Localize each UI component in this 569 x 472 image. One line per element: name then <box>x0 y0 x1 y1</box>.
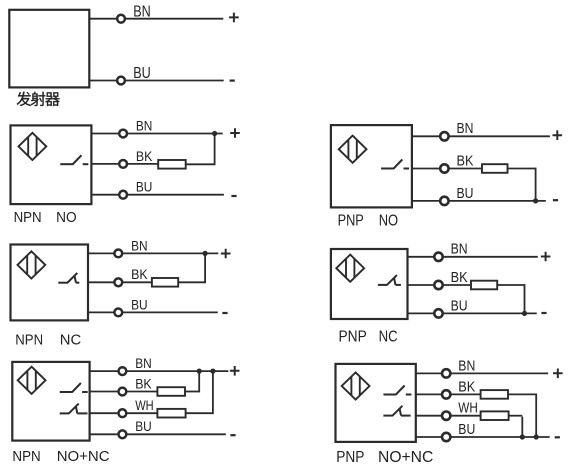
plus terminal PNP NO <box>553 130 563 140</box>
wire WH resistor to node NPN NO+NC <box>186 371 213 414</box>
terminal BN NPN NC <box>114 250 122 258</box>
svg-text:BN: BN <box>136 118 153 133</box>
transmitter box <box>9 10 89 88</box>
resistor load PNP NO <box>482 164 508 173</box>
svg-text:BN: BN <box>131 238 148 253</box>
svg-text:PNP: PNP <box>339 328 367 345</box>
terminal BK PNP NC <box>434 281 442 289</box>
plus terminal PNP NC <box>541 252 551 262</box>
wire WH NPN NO+NC <box>90 412 158 414</box>
node junction NPN NO <box>212 131 217 136</box>
svg-text:BK: BK <box>135 376 152 391</box>
svg-text:NO: NO <box>379 213 398 230</box>
wire BN NPN NC <box>88 252 218 254</box>
wire BK PNP NO <box>412 168 482 170</box>
resistor load WH NPN NO+NC <box>157 409 185 418</box>
wire BK resistor to node PNP NO+NC <box>508 394 536 438</box>
wire BU NPN NO <box>91 194 224 196</box>
sensor box PNP NO <box>331 125 412 207</box>
wire BN PNP NC <box>408 256 538 258</box>
sensor symbol PNP NC <box>336 255 364 282</box>
sensor box NPN NO+NC <box>12 362 89 441</box>
minus terminal PNP NO+NC <box>555 436 560 438</box>
terminal BU transmitter <box>117 77 125 85</box>
terminal BN PNP NC <box>434 253 442 261</box>
resistor load WH PNP NO+NC <box>481 411 509 420</box>
wire BN NPN NO+NC <box>90 370 229 372</box>
switch NC (PNP NC) <box>378 275 401 285</box>
svg-text:BK: BK <box>131 267 148 282</box>
svg-text:BU: BU <box>135 419 152 434</box>
svg-text:NC: NC <box>60 332 82 349</box>
label 发射器 <box>17 92 60 106</box>
terminal BU NPN NO+NC <box>119 430 127 438</box>
wire BU NPN NC <box>88 311 218 313</box>
resistor load NPN NC <box>152 278 178 287</box>
switch NC (PNP NO+NC) <box>383 406 410 416</box>
terminal WH NPN NO+NC <box>119 409 127 417</box>
wire resistor to node NPN NO <box>186 134 215 166</box>
plus terminal NPN NO <box>230 128 240 138</box>
wire BK NPN NO <box>91 163 158 165</box>
node junction NPN NC <box>203 251 208 256</box>
resistor load NPN NO <box>158 160 186 169</box>
node junction PNP NC <box>522 311 527 316</box>
wire BN PNP NO <box>412 135 550 137</box>
node junction 1 PNP NO+NC <box>520 434 525 439</box>
svg-text:NO+NC: NO+NC <box>378 449 433 466</box>
sensor box PNP NO+NC <box>336 364 416 442</box>
resistor load BK PNP NO+NC <box>481 390 508 399</box>
switch NO (PNP NO) <box>381 160 409 169</box>
terminal BU PNP NO <box>440 197 448 205</box>
wire WH PNP NO+NC <box>416 415 481 417</box>
sensor symbol NPN NC <box>18 251 46 278</box>
svg-text:NO+NC: NO+NC <box>57 448 110 465</box>
wire BN NPN NO <box>91 133 222 135</box>
terminal BK PNP NO <box>440 164 448 172</box>
terminal BK PNP NO+NC <box>442 390 450 398</box>
svg-text:BK: BK <box>136 149 153 164</box>
wire resistor to node PNP NO <box>508 168 536 201</box>
svg-text:BU: BU <box>136 180 153 195</box>
sensor box NPN NO <box>11 125 92 204</box>
wire resistor to node PNP NC <box>497 284 524 313</box>
resistor load BK NPN NO+NC <box>157 387 185 396</box>
switch NC (NPN NC) <box>58 273 79 283</box>
wire BU PNP NC <box>408 312 537 314</box>
node junction 2 NPN NO+NC <box>210 369 215 374</box>
svg-text:NPN: NPN <box>14 209 42 226</box>
switch NC (NPN NO+NC) <box>60 404 88 414</box>
terminal BN PNP NO <box>440 132 448 140</box>
wire BK NPN NC <box>88 281 152 283</box>
plus terminal NPN NC <box>221 249 231 259</box>
svg-text:PNP: PNP <box>338 213 364 230</box>
terminal BU NPN NO <box>119 191 127 199</box>
switch NO (NPN NO) <box>60 155 88 164</box>
svg-text:BK: BK <box>457 152 474 169</box>
svg-text:BN: BN <box>458 357 475 374</box>
svg-text:NPN: NPN <box>12 448 40 465</box>
node junction 1 NPN NO+NC <box>197 369 202 374</box>
terminal BU PNP NC <box>434 309 442 317</box>
terminal BU PNP NO+NC <box>442 433 450 441</box>
svg-text:BK: BK <box>451 269 468 286</box>
terminal BN NPN NO+NC <box>119 367 127 375</box>
sensor box PNP NC <box>331 249 408 319</box>
svg-text:WH: WH <box>135 398 154 413</box>
svg-text:BN: BN <box>135 356 152 371</box>
resistor load PNP NC <box>471 281 497 290</box>
wire WH resistor to node PNP NO+NC <box>509 416 523 437</box>
minus terminal NPN NO+NC <box>230 434 235 436</box>
node junction PNP NO <box>533 198 538 203</box>
plus terminal transmitter <box>229 13 239 23</box>
terminal BN transmitter <box>117 15 125 23</box>
svg-text:BN: BN <box>133 3 151 20</box>
svg-text:BU: BU <box>131 297 148 312</box>
svg-text:NC: NC <box>379 328 398 345</box>
terminal BK NPN NC <box>114 278 122 286</box>
sensor symbol NPN NO <box>19 133 47 160</box>
wire BK PNP NO+NC <box>416 393 481 395</box>
wire BU PNP NO+NC <box>416 436 550 438</box>
svg-text:BK: BK <box>458 378 475 395</box>
node junction 2 PNP NO+NC <box>534 434 539 439</box>
minus terminal transmitter <box>230 79 235 81</box>
svg-text:PNP: PNP <box>336 449 364 466</box>
svg-text:BU: BU <box>133 65 151 82</box>
wire BK PNP NC <box>408 284 472 286</box>
svg-text:BU: BU <box>457 185 474 202</box>
wire BU transmitter <box>89 80 223 82</box>
wire resistor to node NPN NC <box>178 253 205 283</box>
sensor box NPN NC <box>11 245 89 321</box>
minus terminal NPN NC <box>222 312 227 314</box>
switch NO (NPN NO+NC) <box>60 383 88 392</box>
svg-text:BN: BN <box>451 241 468 258</box>
wire BU NPN NO+NC <box>90 433 226 435</box>
sensor symbol NPN NO+NC <box>18 367 46 394</box>
wire BN transmitter <box>89 18 223 20</box>
svg-text:NPN: NPN <box>15 332 43 349</box>
wire BK NPN NO+NC <box>90 391 158 393</box>
minus terminal PNP NC <box>541 312 546 314</box>
switch NO (PNP NO+NC) <box>383 386 411 395</box>
wire BK resistor to node NPN NO+NC <box>185 371 199 392</box>
minus terminal NPN NO <box>231 195 236 197</box>
terminal BK NPN NO+NC <box>119 388 127 396</box>
terminal BK NPN NO <box>119 160 127 168</box>
minus terminal PNP NO <box>553 199 558 201</box>
terminal BN NPN NO <box>119 130 127 138</box>
svg-text:BU: BU <box>451 297 468 314</box>
plus terminal PNP NO+NC <box>553 369 563 379</box>
svg-text:BN: BN <box>457 120 474 137</box>
plus terminal NPN NO+NC <box>230 366 240 376</box>
terminal BN PNP NO+NC <box>442 369 450 377</box>
wire BU PNP NO <box>412 200 546 202</box>
svg-text:BU: BU <box>458 421 475 438</box>
svg-text:NO: NO <box>56 209 77 226</box>
sensor symbol PNP NO+NC <box>342 372 370 399</box>
terminal BU NPN NC <box>114 309 122 317</box>
sensor symbol PNP NO <box>339 136 367 163</box>
terminal WH PNP NO+NC <box>442 412 450 420</box>
wire BN PNP NO+NC <box>416 372 548 374</box>
svg-text:WH: WH <box>458 400 478 417</box>
